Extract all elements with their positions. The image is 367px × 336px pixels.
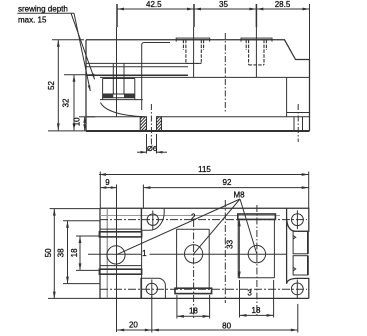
svg-text:18: 18 [70,248,79,257]
svg-text:1: 1 [142,249,147,258]
extension line terminal2 center [193,4,195,77]
terminal 1 clamp body [103,79,135,100]
svg-text:35: 35 [219,0,228,9]
terminal 1 recess lines [100,208,307,298]
dimension 35 [194,8,256,11]
dimension 115 [99,173,309,176]
dimension 50 [48,209,100,299]
dimension 10 [79,117,95,131]
svg-text:10: 10 [72,117,81,126]
terminal 2 hidden screw [183,40,203,64]
dimension 52 [48,40,86,131]
dimension 18 under terminal 3 [240,280,274,318]
svg-text:20: 20 [129,321,138,330]
terminal 3 centerline [256,205,258,317]
terminal 3 hidden screw [246,40,266,65]
connector tabs right [293,231,308,275]
dimension 32 [64,75,95,131]
dimension diameter 6 [137,134,167,154]
svg-text:32: 32 [62,98,71,107]
svg-text:50: 50 [44,248,53,257]
svg-text:Ø6: Ø6 [147,144,157,153]
terminal 1 screw shaft [113,63,124,94]
terminal 3 block [238,214,276,278]
extension line terminal3 center [255,4,257,77]
terminal 3 hole [248,245,265,262]
terminal 3 clamp plate [241,38,272,40]
svg-text:srewing depth: srewing depth [18,4,68,13]
internal busbar lines [86,75,310,77]
leader lines from note [71,13,95,79]
aux centerline bottom view [224,200,226,303]
mounting ear top-right hole [292,210,304,229]
svg-text:18: 18 [189,307,198,316]
terminal 1 centerline vertical [116,208,118,332]
module side view outline [86,40,310,131]
terminal 2 hole [184,245,202,263]
base plate top line [86,116,310,118]
dimension 80 [152,304,298,333]
extension lines top [100,172,308,209]
right lower body edge [286,77,288,116]
extension line terminal1 center [116,4,119,117]
module bottom view outline [100,208,309,298]
dimension 92 [143,186,308,189]
terminal 1 pocket wall [142,43,170,111]
svg-text:M8: M8 [233,191,245,200]
svg-text:9: 9 [105,178,110,187]
mounting ear bottom-right hole [291,280,303,299]
svg-text:18: 18 [252,306,261,315]
terminal 1 hole [107,246,125,264]
internal deck lines [86,63,201,66]
svg-text:28.5: 28.5 [275,0,291,9]
svg-text:33: 33 [226,239,235,248]
mounting ear top-left [141,208,164,230]
note: screwing depth label [17,4,74,24]
extension line right edge [309,4,311,60]
aux centerline [224,33,226,112]
dimension 20 [117,296,152,333]
left mounting hole centerline [150,104,152,145]
right ear centerline [297,104,299,142]
terminal 1 flange bands [99,229,141,274]
inner face outline [106,208,108,298]
dimension 18 under terminal 2 [177,295,210,319]
mounting ear bottom-left [141,278,166,298]
dimension 33 [238,219,241,278]
svg-text:max. 15: max. 15 [18,16,47,25]
dimension 28.5 [256,8,309,11]
terminal 2 block [175,229,212,293]
terminal 1 nut [100,94,143,100]
svg-text:3: 3 [247,288,252,297]
svg-text:92: 92 [223,178,232,187]
case molding curve [101,103,144,117]
dimension 18 left [76,236,100,270]
left mounting hole hatching [140,117,161,131]
svg-text:38: 38 [57,248,66,257]
svg-text:52: 52 [47,81,56,90]
dimension 38 [63,221,100,284]
right ear hole edges [294,117,303,131]
svg-text:42.5: 42.5 [146,0,162,9]
svg-text:115: 115 [198,165,211,174]
dimension 42.5 [117,8,194,11]
horizontal centerline [88,253,287,255]
terminal 2 clamp plate [176,38,210,40]
terminal 2 centerline [193,220,195,320]
dimension 9 [100,186,116,189]
svg-text:80: 80 [222,322,231,331]
right ear flange line [287,112,310,114]
